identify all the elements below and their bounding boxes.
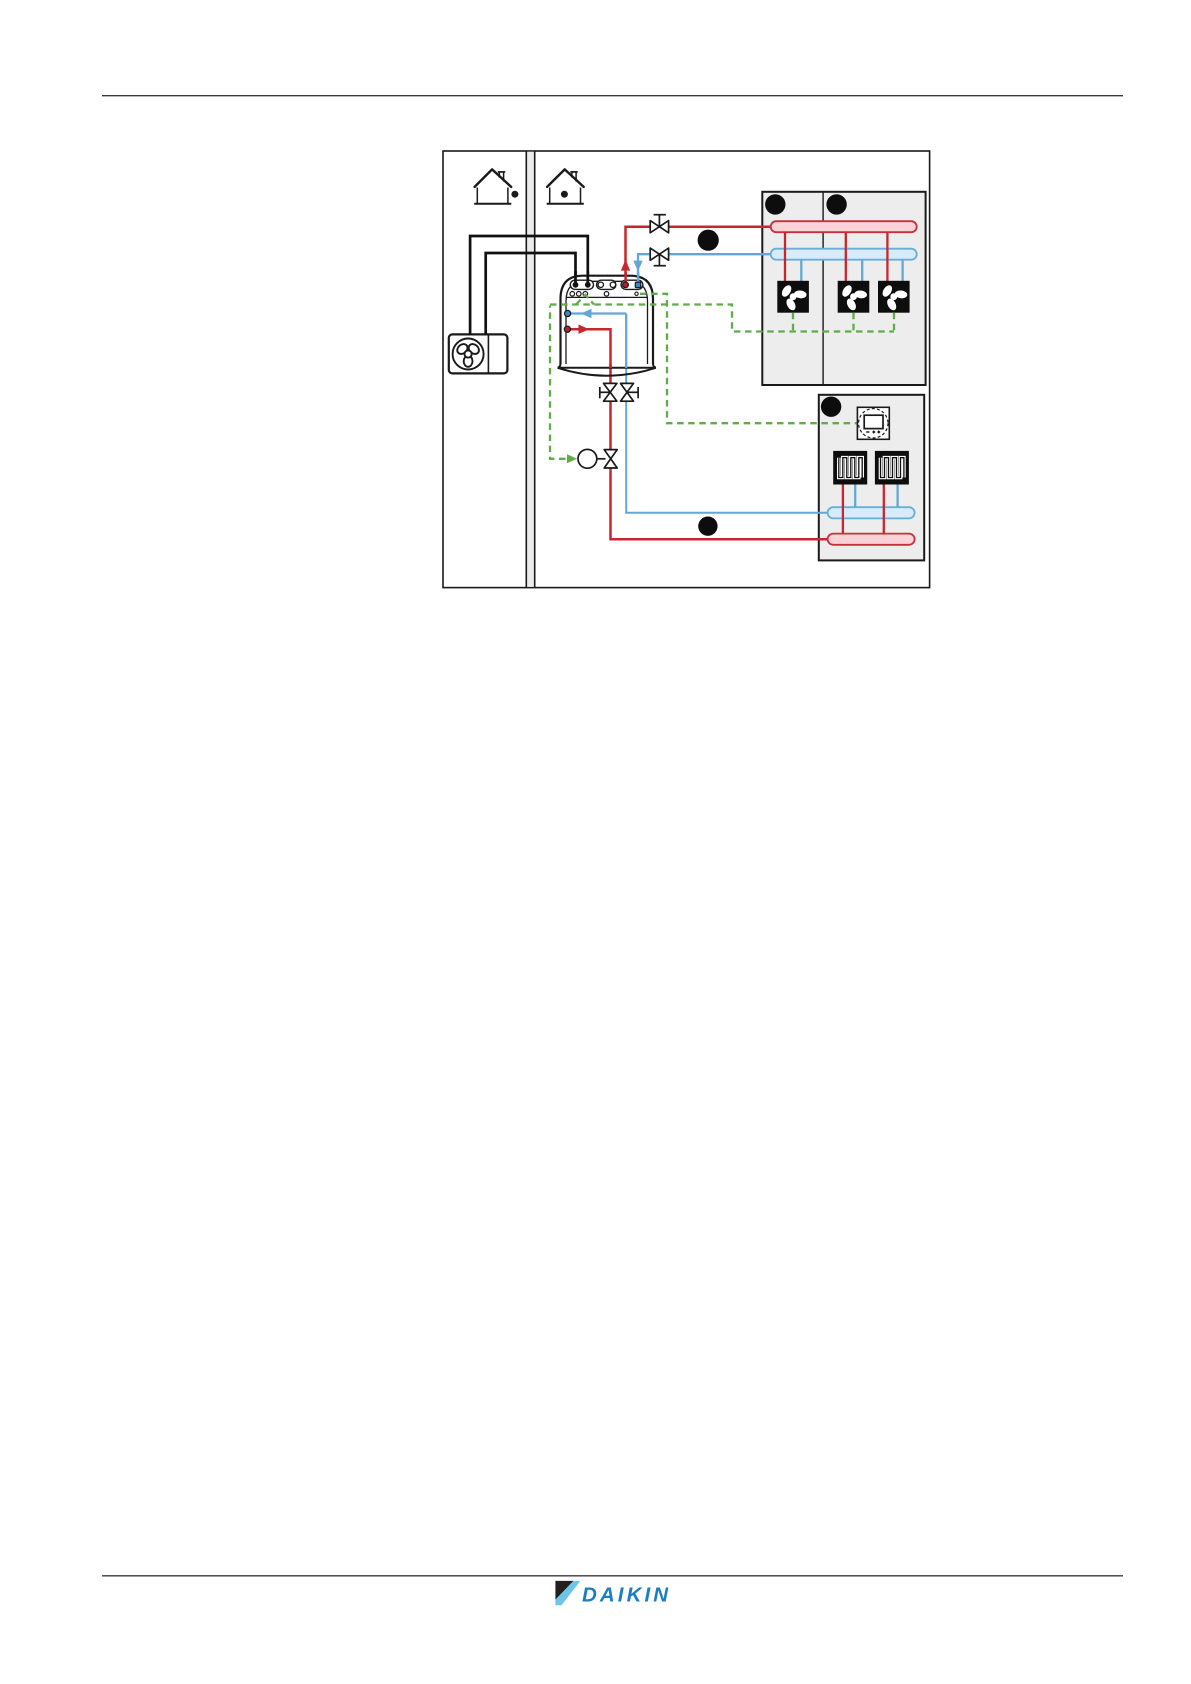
fan-coil zone box [762, 192, 925, 385]
floor-heating zone box [819, 395, 924, 561]
floor heating loop 2 [875, 451, 909, 485]
tank inner wall [566, 281, 648, 364]
diagram outer frame [443, 151, 930, 588]
label bullet a (fan-coil pipes) [698, 230, 719, 251]
label bullet e (floor pipes) [698, 517, 717, 536]
connector to indoor unit port [576, 295, 594, 305]
red pipe: internal + down to floor header [567, 329, 830, 539]
fan-coil unit 3 [878, 281, 910, 313]
tank small screw circles [570, 292, 575, 297]
tank port dots inside (blue/red) [565, 310, 571, 316]
shut-off valve pair under tank (red) [600, 383, 617, 401]
tank terminal pill 3 (water ports) [621, 280, 643, 289]
tank top separator line [566, 296, 648, 298]
label bullet c (fan-coil zone right) [826, 194, 846, 214]
wall between outdoor and indoor [526, 151, 534, 588]
shut-off valve on blue return pipe [650, 248, 668, 266]
floor heating loop 1 [833, 451, 867, 485]
fan-coil unit 2 [838, 281, 870, 313]
floor blue drop pipes [855, 484, 897, 507]
label bullet b (fan-coil zone) [765, 194, 785, 214]
svg-text:DAIKIN: DAIKIN [582, 1583, 671, 1606]
fan-coil control drops [793, 313, 894, 332]
house icon outdoor (dot outside) [474, 169, 518, 203]
wire stubs into terminals [576, 271, 588, 285]
label bullet d (floor zone) [821, 397, 841, 417]
red pipe: leaving water to fan-coil header [626, 227, 773, 284]
wire to room thermostat [640, 294, 857, 423]
green arrow into filter valve [567, 454, 577, 463]
fan-coil return header capsule (blue) [771, 249, 917, 260]
tank bottom skirt [558, 363, 656, 368]
fan-coil blue drop pipes [801, 260, 902, 282]
house icon indoor (dot inside) [547, 169, 584, 203]
room thermostat [857, 407, 889, 439]
floor return header capsule (blue) [828, 507, 915, 518]
valve on red pipe at filter [604, 450, 617, 468]
shut-off valve on red supply pipe [650, 215, 668, 233]
terminal dots [573, 282, 579, 288]
field wire 1 (outdoor to indoor unit) [470, 236, 588, 334]
page top rule [102, 95, 1123, 97]
floor supply header capsule (red) [828, 534, 915, 545]
field wire 2 (outdoor to indoor unit) [486, 253, 576, 334]
blue arrow down (return riser) [633, 261, 642, 272]
tank terminal pill 2 [597, 280, 616, 289]
tank terminal pill 1 (power) [570, 280, 593, 289]
blue arrow left (into tank) [581, 309, 592, 318]
page bottom rule [102, 1575, 1123, 1577]
blue pipe: internal + down to floor header [568, 314, 830, 513]
filter ball valve circle [578, 449, 597, 468]
indoor unit tank body [558, 276, 656, 376]
fan-coil zone divider [822, 192, 824, 385]
wire to filter valve motor [550, 306, 566, 459]
red pipe riser inside tank redrawn over tank [567, 329, 610, 368]
blue pipe: return from fan-coil header [638, 254, 772, 284]
riser stubs into water ports [624, 272, 627, 284]
shut-off valve pair under tank (blue) [621, 383, 639, 401]
floor red drop pipes [843, 484, 884, 534]
red arrow right (out of tank) [579, 325, 590, 334]
Daikin logo mark [555, 1581, 580, 1605]
fan-coil red drop pipes [785, 232, 887, 281]
outdoor unit box [449, 334, 508, 373]
fan-coil supply header capsule (red) [771, 221, 917, 232]
control wiring bus (green dashed) [550, 294, 894, 459]
main horizontal control bus [550, 305, 894, 332]
fan-coil unit 1 [777, 281, 809, 313]
outdoor unit fan [453, 339, 484, 370]
red arrow up (supply riser) [621, 260, 630, 271]
